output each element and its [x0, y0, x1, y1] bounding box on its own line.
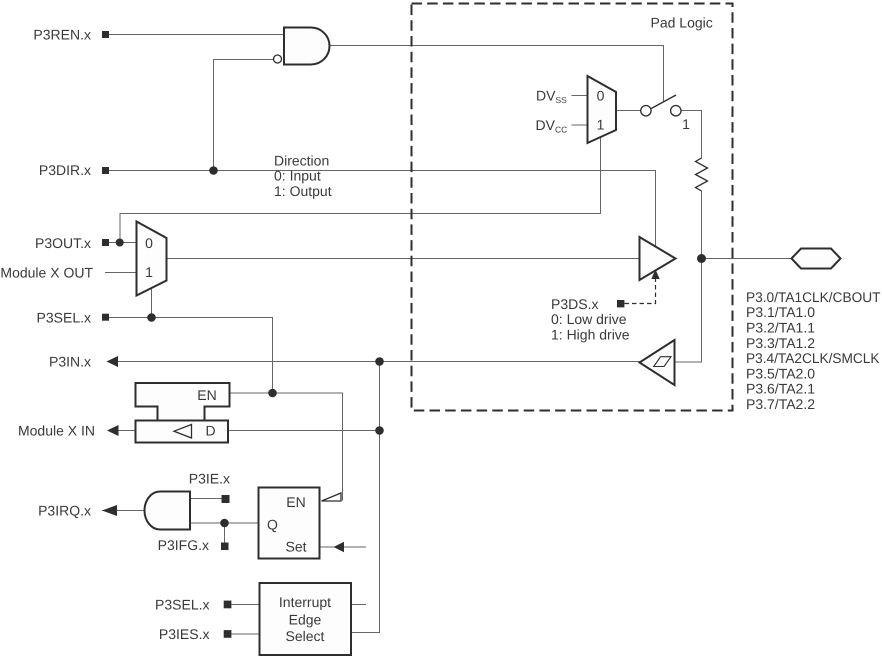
- node junction D input: [375, 426, 384, 435]
- terminal square P3OUT.x: [102, 239, 109, 246]
- arrowhead P3IRQ.x: [102, 505, 117, 516]
- wire Module X IN from D latch: [118, 430, 136, 432]
- wire P3DIR branch up to NAND inverted input: [214, 60, 274, 171]
- svg-text:P3DS.x: P3DS.x: [551, 296, 598, 312]
- wire Module X OUT to mux 1 input: [105, 272, 137, 274]
- wire mux select to P3SEL line: [151, 288, 153, 318]
- wire pull mux select down-left to P3OUT line: [120, 138, 601, 240]
- wire D latch input from pin line: [228, 430, 380, 432]
- node junction P3SEL: [147, 313, 156, 322]
- svg-text:0: 0: [597, 88, 605, 104]
- svg-text:EN: EN: [197, 387, 216, 403]
- wire resistor bottom to output node: [701, 191, 703, 259]
- mux U3 P3OUT / Module X OUT: [137, 222, 167, 296]
- wire P3IFG branch: [224, 523, 226, 543]
- terminal square P3REN.x: [102, 31, 109, 38]
- switch S1 circle left: [641, 106, 651, 116]
- D latch clock triangle: [174, 425, 192, 439]
- flip-flop EN edge triangle: [322, 493, 342, 501]
- wire Q output to IRQ AND gate: [190, 522, 259, 524]
- wire NAND output to switch lever: [329, 46, 664, 102]
- svg-text:0: Input: 0: Input: [274, 168, 321, 184]
- switch S1 circle right: [671, 106, 681, 116]
- wire DVcc stub: [572, 124, 588, 126]
- mux U2 pull-up/pull-down select: [588, 76, 617, 143]
- schmitt trigger U5: [640, 340, 675, 385]
- resistor R1 pull-up/down: [696, 158, 708, 191]
- node junction P3IFG: [220, 519, 229, 528]
- wire P3SEL.x line down to EN line: [109, 318, 273, 394]
- schmitt hysteresis symbol: [654, 357, 671, 367]
- P3DS.x dashed drive-strength line with arrow: [625, 272, 656, 304]
- node junction P3IN branch: [375, 357, 384, 366]
- interrupt flag flip-flop U9: [259, 488, 320, 559]
- dashed pad logic border: [412, 4, 733, 411]
- wire DVss stub: [572, 95, 588, 97]
- svg-text:1: Output: 1: Output: [274, 183, 332, 199]
- svg-text:P3.1/TA1.0: P3.1/TA1.0: [746, 304, 815, 320]
- svg-text:P3.3/TA1.2: P3.3/TA1.2: [746, 335, 815, 351]
- svg-text:P3DIR.x: P3DIR.x: [39, 162, 91, 178]
- svg-text:Interrupt: Interrupt: [279, 594, 331, 610]
- svg-text:Edge: Edge: [289, 612, 322, 628]
- terminal square P3SEL.x: [102, 314, 109, 321]
- arrowhead P3IN.x: [107, 356, 119, 367]
- wire P3OUT.x to mux 0 input: [109, 242, 137, 244]
- node output junction: [697, 254, 706, 263]
- nand gate U1 (P3REN enable): [284, 28, 330, 65]
- svg-text:0: 0: [145, 235, 153, 251]
- terminal square P3DS.x: [617, 300, 624, 307]
- svg-text:EN: EN: [286, 494, 305, 510]
- svg-text:P3.2/TA1.1: P3.2/TA1.1: [746, 320, 815, 336]
- wire mux output to output buffer: [167, 258, 640, 260]
- svg-text:P3.0/TA1CLK/CBOUT: P3.0/TA1CLK/CBOUT: [746, 289, 881, 305]
- output buffer U4: [640, 237, 676, 280]
- wire P3DIR.x Direction line to output buffer enable: [109, 171, 656, 247]
- wire P3IES.x to edge select: [232, 633, 260, 635]
- D latch U7 (Module X IN): [136, 421, 229, 443]
- svg-text:P3IN.x: P3IN.x: [49, 354, 91, 370]
- wire mux output to switch: [616, 110, 641, 112]
- svg-text:Module X IN: Module X IN: [18, 423, 95, 439]
- wire Set input stub: [320, 546, 367, 548]
- svg-text:P3OUT.x: P3OUT.x: [35, 235, 91, 251]
- wire edge select right stub: [351, 604, 367, 606]
- svg-text:P3SEL.x: P3SEL.x: [37, 309, 91, 325]
- svg-text:1: 1: [682, 116, 690, 132]
- svg-text:Module X OUT: Module X OUT: [0, 264, 93, 280]
- arrowhead Set input: [334, 542, 345, 552]
- node junction P3DIR: [209, 166, 218, 175]
- wire P3REN.x to NAND input: [109, 34, 283, 36]
- nand gate U1 input bubble: [274, 55, 282, 63]
- svg-text:Q: Q: [267, 516, 278, 532]
- arrowhead Module X IN: [107, 425, 119, 436]
- wire P3IRQ.x output: [102, 510, 145, 512]
- svg-text:Direction: Direction: [274, 152, 329, 168]
- wire P3IE.x to IRQ AND gate: [190, 498, 222, 500]
- wire switch to resistor top: [681, 111, 702, 159]
- svg-text:P3IRQ.x: P3IRQ.x: [38, 503, 91, 519]
- node junction P3OUT: [116, 239, 124, 247]
- svg-text:P3.7/TA2.2: P3.7/TA2.2: [746, 396, 815, 412]
- wire P3IN.x line to schmitt output: [118, 361, 640, 363]
- interrupt edge select box U10: [260, 583, 352, 655]
- svg-text:P3REN.x: P3REN.x: [33, 27, 91, 43]
- svg-text:P3.5/TA2.0: P3.5/TA2.0: [746, 365, 815, 381]
- svg-text:DVSS: DVSS: [536, 88, 567, 106]
- svg-text:P3IE.x: P3IE.x: [189, 471, 230, 487]
- svg-text:P3SEL.x: P3SEL.x: [155, 597, 209, 613]
- svg-text:1: High drive: 1: High drive: [551, 327, 630, 343]
- wire P3IN branch down to interrupt edge select output: [351, 362, 380, 633]
- terminal square P3IES.x: [224, 630, 232, 638]
- svg-text:D: D: [205, 422, 215, 438]
- wire output node to pad: [702, 258, 792, 260]
- svg-text:P3IFG.x: P3IFG.x: [158, 537, 209, 553]
- svg-text:P3IES.x: P3IES.x: [159, 626, 210, 642]
- svg-text:Set: Set: [285, 538, 306, 554]
- svg-text:P3.4/TA2CLK/SMCLK: P3.4/TA2CLK/SMCLK: [746, 350, 880, 366]
- terminal square P3DIR.x: [102, 167, 109, 174]
- svg-text:Select: Select: [286, 628, 325, 644]
- and gate U8 (P3IRQ, mirrored): [145, 492, 191, 530]
- svg-text:DVCC: DVCC: [536, 117, 568, 135]
- svg-text:P3.6/TA2.1: P3.6/TA2.1: [746, 381, 815, 397]
- svg-text:1: 1: [597, 117, 605, 133]
- EN latch U6 (input buffer enable): [136, 383, 230, 421]
- node junction EN line: [268, 389, 277, 398]
- terminal square P3IE.x: [222, 495, 230, 503]
- terminal square P3IFG.x: [221, 543, 229, 551]
- wire P3SEL.x to edge select: [232, 604, 260, 606]
- terminal square P3SEL.x (edge select): [224, 601, 232, 609]
- wire output node down to schmitt input: [675, 259, 702, 363]
- svg-text:1: 1: [145, 264, 153, 280]
- wire EN latch output to interrupt FF enable: [230, 393, 343, 501]
- svg-text:0: Low drive: 0: Low drive: [551, 311, 627, 327]
- switch S1 lever: [651, 95, 676, 109]
- svg-text:Pad Logic: Pad Logic: [651, 15, 713, 31]
- pad hexagon: [792, 249, 841, 269]
